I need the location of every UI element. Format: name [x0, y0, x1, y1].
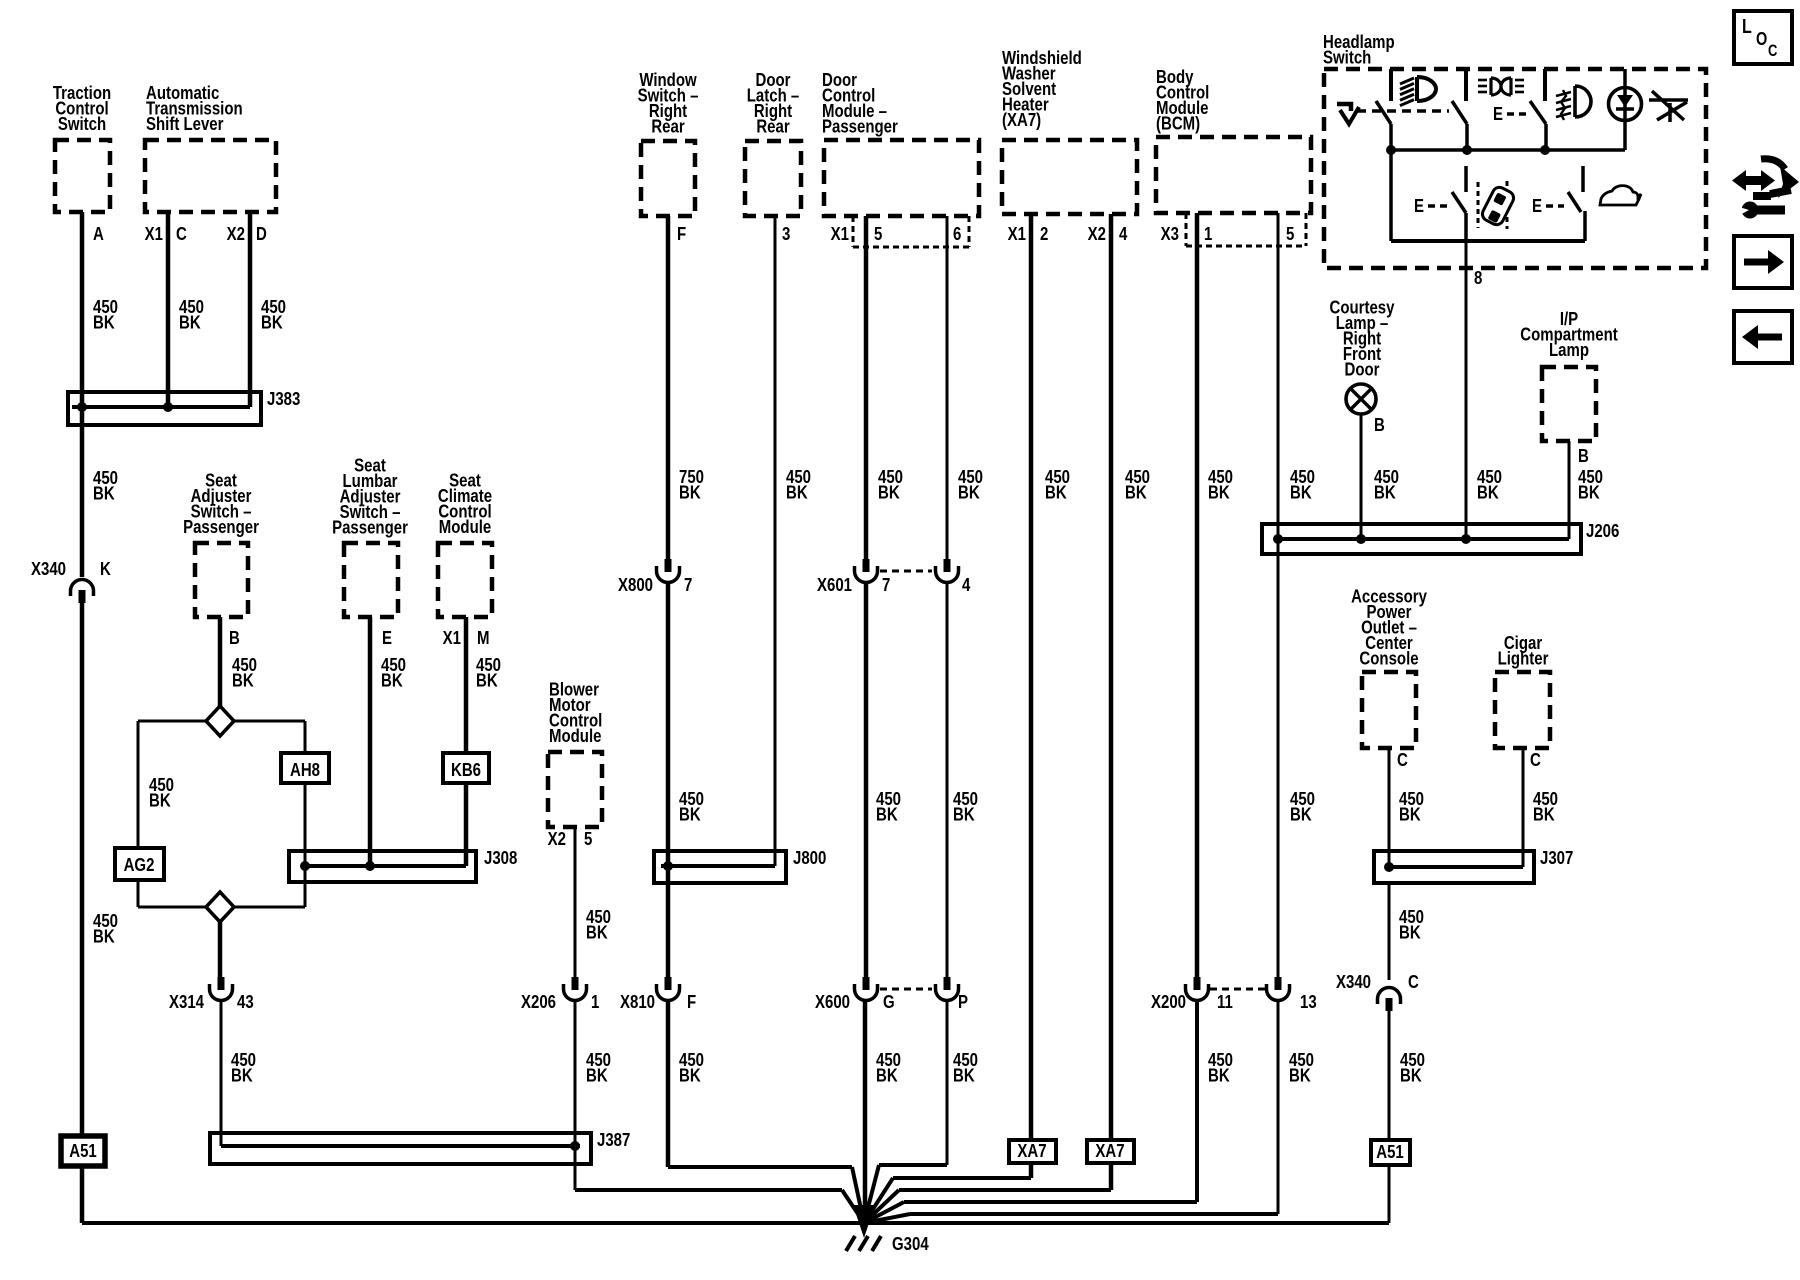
- wire: KB6 to J308: [464, 783, 469, 866]
- svg-text:BK: BK: [93, 312, 115, 333]
- wire: outlet pin C to J307, 450 BK: [1388, 748, 1391, 867]
- svg-text:B: B: [229, 627, 240, 648]
- ground bus wire to G304: [82, 1221, 1389, 1225]
- svg-text:Module: Module: [549, 725, 601, 746]
- arrow icon: continues left: [1734, 311, 1792, 363]
- svg-text:BK: BK: [1208, 482, 1230, 503]
- splice pack J308: [289, 851, 476, 882]
- parking lamps icon: [1491, 78, 1501, 95]
- in-line connector X800 pin 7: [665, 559, 672, 572]
- svg-text:Module: Module: [439, 516, 491, 537]
- svg-text:X600: X600: [815, 991, 850, 1012]
- in-line connector X601 pin 4: [944, 559, 951, 572]
- splice pack J800: [654, 851, 786, 883]
- svg-text:X314: X314: [169, 991, 205, 1012]
- pointer / see-other-cell icon: [1742, 176, 1764, 185]
- wire: Seat Lumbar pin E, 450 BK: [368, 617, 373, 866]
- svg-text:BK: BK: [878, 482, 900, 503]
- indicator LED icon: [1609, 88, 1642, 121]
- wire: X600-G to G304, 450 BK: [863, 1002, 868, 1219]
- svg-text:A51: A51: [69, 1140, 97, 1161]
- in-line connector X600 pin G: [863, 977, 870, 990]
- svg-text:Lamp: Lamp: [1549, 339, 1589, 360]
- svg-text:BK: BK: [953, 1065, 975, 1086]
- svg-text:BK: BK: [261, 312, 283, 333]
- connector X3 of BCM: [1185, 213, 1188, 246]
- svg-text:8: 8: [1474, 267, 1482, 288]
- connector XA7 (second): [1087, 1140, 1134, 1163]
- svg-text:X2: X2: [548, 828, 566, 849]
- switch contact dashed link (lever to switches): [1357, 109, 1449, 113]
- wire: Blower X2 pin 5, 450 BK: [574, 827, 577, 978]
- svg-text:XA7: XA7: [1017, 1140, 1046, 1161]
- svg-text:Shift Lever: Shift Lever: [146, 113, 224, 134]
- svg-text:BK: BK: [232, 670, 254, 691]
- svg-text:5: 5: [584, 828, 592, 849]
- svg-text:X3: X3: [1161, 223, 1179, 244]
- svg-text:J387: J387: [597, 1129, 630, 1150]
- svg-text:J206: J206: [1586, 520, 1619, 541]
- fog lamp icon: [1575, 86, 1591, 117]
- wire: X206 through J387 to G304, 450 BK: [574, 1002, 577, 1190]
- svg-text:C: C: [1408, 971, 1419, 992]
- in-line connector X600 pin P: [944, 977, 951, 990]
- splice pack J307: [1374, 851, 1534, 883]
- arrow icon: continues right: [1734, 236, 1792, 288]
- connector KB6: [443, 753, 489, 783]
- svg-text:BK: BK: [876, 804, 898, 825]
- svg-text:X800: X800: [618, 574, 653, 595]
- svg-text:BK: BK: [179, 312, 201, 333]
- svg-text:BK: BK: [93, 483, 115, 504]
- wire: ATS X1 pin C, 450 BK: [166, 212, 171, 407]
- svg-text:6: 6: [953, 223, 961, 244]
- wire: Door Latch pin 3, 450 BK: [774, 216, 777, 866]
- svg-text:BK: BK: [1208, 1065, 1230, 1086]
- in-line connector X200 pin 13: [1275, 977, 1282, 990]
- wire: heater X1 pin 2, 450 BK: [1029, 214, 1034, 1140]
- svg-text:BK: BK: [231, 1065, 253, 1086]
- headlamp switch lever icon: [1337, 104, 1351, 111]
- svg-text:X1: X1: [1008, 223, 1026, 244]
- wire: I/P lamp pin B to J206, 450 BK: [1568, 441, 1571, 539]
- ground point G304: [853, 1205, 875, 1238]
- svg-text:X1: X1: [443, 627, 461, 648]
- wire: Seat Climate X1 pin M, 450 BK: [464, 617, 469, 753]
- svg-text:(BCM): (BCM): [1156, 113, 1200, 134]
- svg-text:X810: X810: [620, 991, 655, 1012]
- svg-text:BK: BK: [958, 482, 980, 503]
- wire: XA7 second to G304: [1109, 1163, 1114, 1190]
- LOC legend box: [1734, 11, 1792, 64]
- svg-text:Door: Door: [1345, 359, 1380, 380]
- wire: ATS X2 pin D, 450 BK: [248, 212, 253, 407]
- svg-text:C: C: [176, 223, 187, 244]
- svg-text:P: P: [958, 991, 968, 1012]
- wire: Seat Adjuster Switch pin B, 450 BK: [218, 617, 223, 707]
- connector bridge X600: [880, 988, 932, 991]
- panel dimming icon: [1652, 91, 1684, 120]
- wire: J307 to X340, 450 BK: [1388, 883, 1391, 980]
- svg-text:4: 4: [962, 574, 971, 595]
- in-line connector X206 pin 1: [572, 977, 579, 990]
- svg-text:J308: J308: [484, 847, 517, 868]
- svg-text:X206: X206: [521, 991, 556, 1012]
- wire: Window Switch pin F, 750 BK: [666, 216, 671, 560]
- wire: lower diamond to X314, 450 BK: [218, 921, 223, 978]
- svg-text:2: 2: [1040, 223, 1048, 244]
- wire: heater X2 pin 4, 450 BK: [1109, 214, 1114, 1140]
- svg-text:G: G: [883, 991, 895, 1012]
- headlamp switch contact 3: [1543, 69, 1547, 101]
- wire: headlamp switch internal feed to LED: [1623, 69, 1627, 150]
- svg-text:AH8: AH8: [290, 759, 320, 780]
- svg-text:F: F: [687, 991, 696, 1012]
- headlamp switch row-2 bottom bus: [1391, 239, 1585, 243]
- svg-text:X601: X601: [817, 574, 852, 595]
- wire: branch to AG2, 450 BK: [138, 720, 206, 723]
- svg-text:BK: BK: [876, 1065, 898, 1086]
- svg-text:Console: Console: [1359, 648, 1418, 669]
- svg-text:B: B: [1374, 414, 1385, 435]
- svg-text:J383: J383: [267, 388, 300, 409]
- svg-text:M: M: [477, 627, 489, 648]
- wire: courtesy lamp pin B to J206, 450 BK: [1360, 414, 1363, 539]
- wire: X314 to J387, 450 BK: [220, 1002, 223, 1146]
- svg-text:1: 1: [591, 991, 599, 1012]
- wire: DCM pin 5, 450 BK: [864, 216, 869, 560]
- splice pack J383: [68, 392, 261, 425]
- in-line connector X314 pin 43: [218, 977, 225, 990]
- connector X1 of Door Control Module: [852, 216, 855, 247]
- ground terminal A51 (left): [61, 1136, 105, 1166]
- in-line connector X340 pin C: [1378, 988, 1401, 1000]
- svg-text:11: 11: [1217, 991, 1233, 1012]
- svg-text:C: C: [1530, 749, 1541, 770]
- svg-text:KB6: KB6: [451, 759, 481, 780]
- wire: X810 to G304, 450 BK: [666, 1002, 671, 1167]
- svg-text:BK: BK: [476, 670, 498, 691]
- svg-text:5: 5: [874, 223, 882, 244]
- headlamp switch contact 2: [1464, 69, 1468, 101]
- svg-text:7: 7: [882, 574, 890, 595]
- svg-text:X340: X340: [31, 558, 66, 579]
- wire: X600-P to G304, 450 BK: [946, 1002, 949, 1165]
- svg-text:X1: X1: [831, 223, 849, 244]
- wire: AH8 through J308 to lower diamond: [304, 783, 307, 907]
- svg-text:1: 1: [1204, 223, 1212, 244]
- svg-text:7: 7: [684, 574, 692, 595]
- svg-text:BK: BK: [586, 1065, 608, 1086]
- in-line connector X601 pin 7: [863, 559, 870, 572]
- splice diamond (upper): [206, 706, 234, 736]
- high-beam icon: [1417, 77, 1436, 101]
- svg-text:D: D: [256, 223, 267, 244]
- svg-text:Switch: Switch: [1323, 47, 1371, 68]
- svg-text:BK: BK: [679, 804, 701, 825]
- svg-text:A51: A51: [1376, 1141, 1404, 1162]
- svg-text:13: 13: [1300, 991, 1317, 1012]
- svg-text:Passenger: Passenger: [183, 516, 259, 537]
- wire: XA7 to G304: [1029, 1163, 1034, 1178]
- svg-text:C: C: [1397, 749, 1408, 770]
- svg-text:BK: BK: [1400, 1065, 1422, 1086]
- wire: X340 to A51, 450 BK: [80, 601, 85, 1136]
- svg-text:BK: BK: [149, 790, 171, 811]
- svg-text:E: E: [1414, 195, 1424, 216]
- svg-text:BK: BK: [786, 482, 808, 503]
- svg-text:BK: BK: [1399, 804, 1421, 825]
- in-line connector X810 pin F: [665, 977, 672, 990]
- svg-text:3: 3: [782, 223, 790, 244]
- svg-text:BK: BK: [1477, 482, 1499, 503]
- svg-text:X1: X1: [145, 223, 163, 244]
- wire: A51 to G304 ground: [80, 1166, 85, 1223]
- svg-text:J307: J307: [1540, 847, 1573, 868]
- connector AH8: [281, 753, 329, 783]
- wire: J383 to X340, 450 BK: [80, 407, 85, 577]
- wire: DCM pin 6, 450 BK: [946, 216, 949, 560]
- svg-text:Lighter: Lighter: [1498, 648, 1549, 669]
- trunk car icon: [1600, 186, 1641, 205]
- splice pack J206: [1262, 524, 1581, 554]
- svg-text:BK: BK: [1578, 482, 1600, 503]
- svg-text:BK: BK: [679, 1065, 701, 1086]
- svg-text:(XA7): (XA7): [1002, 109, 1041, 130]
- svg-text:Rear: Rear: [756, 116, 790, 137]
- door-open car icon: [1477, 182, 1480, 228]
- svg-text:BK: BK: [1125, 482, 1147, 503]
- svg-text:4: 4: [1119, 223, 1128, 244]
- svg-text:43: 43: [237, 991, 254, 1012]
- svg-text:X2: X2: [227, 223, 245, 244]
- headlamp switch contact 1: [1389, 69, 1393, 101]
- splice pack J387: [210, 1133, 591, 1164]
- svg-text:AG2: AG2: [124, 854, 155, 875]
- wire: cigar lighter pin C to J307, 450 BK: [1522, 748, 1525, 867]
- svg-text:X2: X2: [1088, 223, 1106, 244]
- svg-text:O: O: [1756, 30, 1767, 50]
- svg-text:X340: X340: [1336, 971, 1371, 992]
- svg-text:J800: J800: [793, 847, 826, 868]
- svg-text:Passenger: Passenger: [332, 517, 408, 538]
- svg-text:BK: BK: [1533, 804, 1555, 825]
- in-line connector X340 pin K: [71, 580, 94, 592]
- headlamp switch row-1 bus: [1391, 148, 1625, 152]
- svg-text:C: C: [1768, 43, 1778, 61]
- wire: X340 to A51 (right), 450 BK: [1388, 1009, 1391, 1140]
- svg-text:BK: BK: [586, 922, 608, 943]
- connector bridge X200: [1210, 988, 1265, 991]
- ground terminal A51 (right): [1371, 1140, 1410, 1165]
- svg-text:BK: BK: [679, 482, 701, 503]
- wire: X200-13 to G304, 450 BK: [1277, 1002, 1280, 1214]
- wire: X601-7 to X600-G, 450 BK: [864, 584, 869, 978]
- wire: X800 through J800 to X810, 450 BK: [666, 584, 671, 978]
- wire: A51 right to G304 ground: [1388, 1165, 1391, 1223]
- wire: branch to AH8: [234, 720, 305, 723]
- headlamp switch row-2 left rail: [1389, 150, 1393, 241]
- svg-text:X200: X200: [1151, 991, 1186, 1012]
- svg-text:BK: BK: [1045, 482, 1067, 503]
- svg-text:BK: BK: [1399, 922, 1421, 943]
- svg-text:BK: BK: [1289, 1065, 1311, 1086]
- svg-text:BK: BK: [1374, 482, 1396, 503]
- svg-text:L: L: [1742, 15, 1752, 37]
- wire: headlamp switch pin 8 to J206, 450 BK: [1465, 241, 1468, 539]
- svg-text:BK: BK: [381, 670, 403, 691]
- wire: BCM pin 5, 450 BK: [1277, 213, 1280, 978]
- svg-text:Passenger: Passenger: [822, 116, 898, 137]
- svg-text:Rear: Rear: [651, 116, 685, 137]
- svg-text:G304: G304: [892, 1233, 929, 1254]
- wire: X601-4 to X600-P, 450 BK: [946, 584, 949, 978]
- svg-text:E: E: [1493, 103, 1503, 124]
- svg-text:BK: BK: [953, 804, 975, 825]
- svg-text:Switch: Switch: [58, 113, 106, 134]
- svg-text:BK: BK: [1290, 804, 1312, 825]
- splice diamond (lower): [206, 892, 234, 922]
- wire: Traction Control Switch pin A, 450 BK: [80, 212, 85, 407]
- svg-text:A: A: [93, 223, 104, 244]
- connector AG2: [115, 848, 164, 880]
- svg-text:BK: BK: [1290, 482, 1312, 503]
- svg-text:F: F: [677, 223, 686, 244]
- svg-text:B: B: [1578, 445, 1589, 466]
- svg-text:5: 5: [1286, 223, 1294, 244]
- svg-text:E: E: [1532, 195, 1542, 216]
- wire: BCM pin 1, 450 BK: [1195, 213, 1200, 978]
- svg-text:E: E: [382, 627, 392, 648]
- connector XA7 (first): [1009, 1140, 1056, 1163]
- connector bridge X601: [880, 570, 932, 573]
- wire: X200-11 to G304, 450 BK: [1195, 1002, 1199, 1202]
- in-line connector X200 pin 11: [1194, 977, 1201, 990]
- svg-text:XA7: XA7: [1095, 1140, 1124, 1161]
- svg-text:BK: BK: [93, 926, 115, 947]
- wire: AG2 to lower splice diamond: [137, 880, 140, 907]
- svg-text:K: K: [100, 558, 111, 579]
